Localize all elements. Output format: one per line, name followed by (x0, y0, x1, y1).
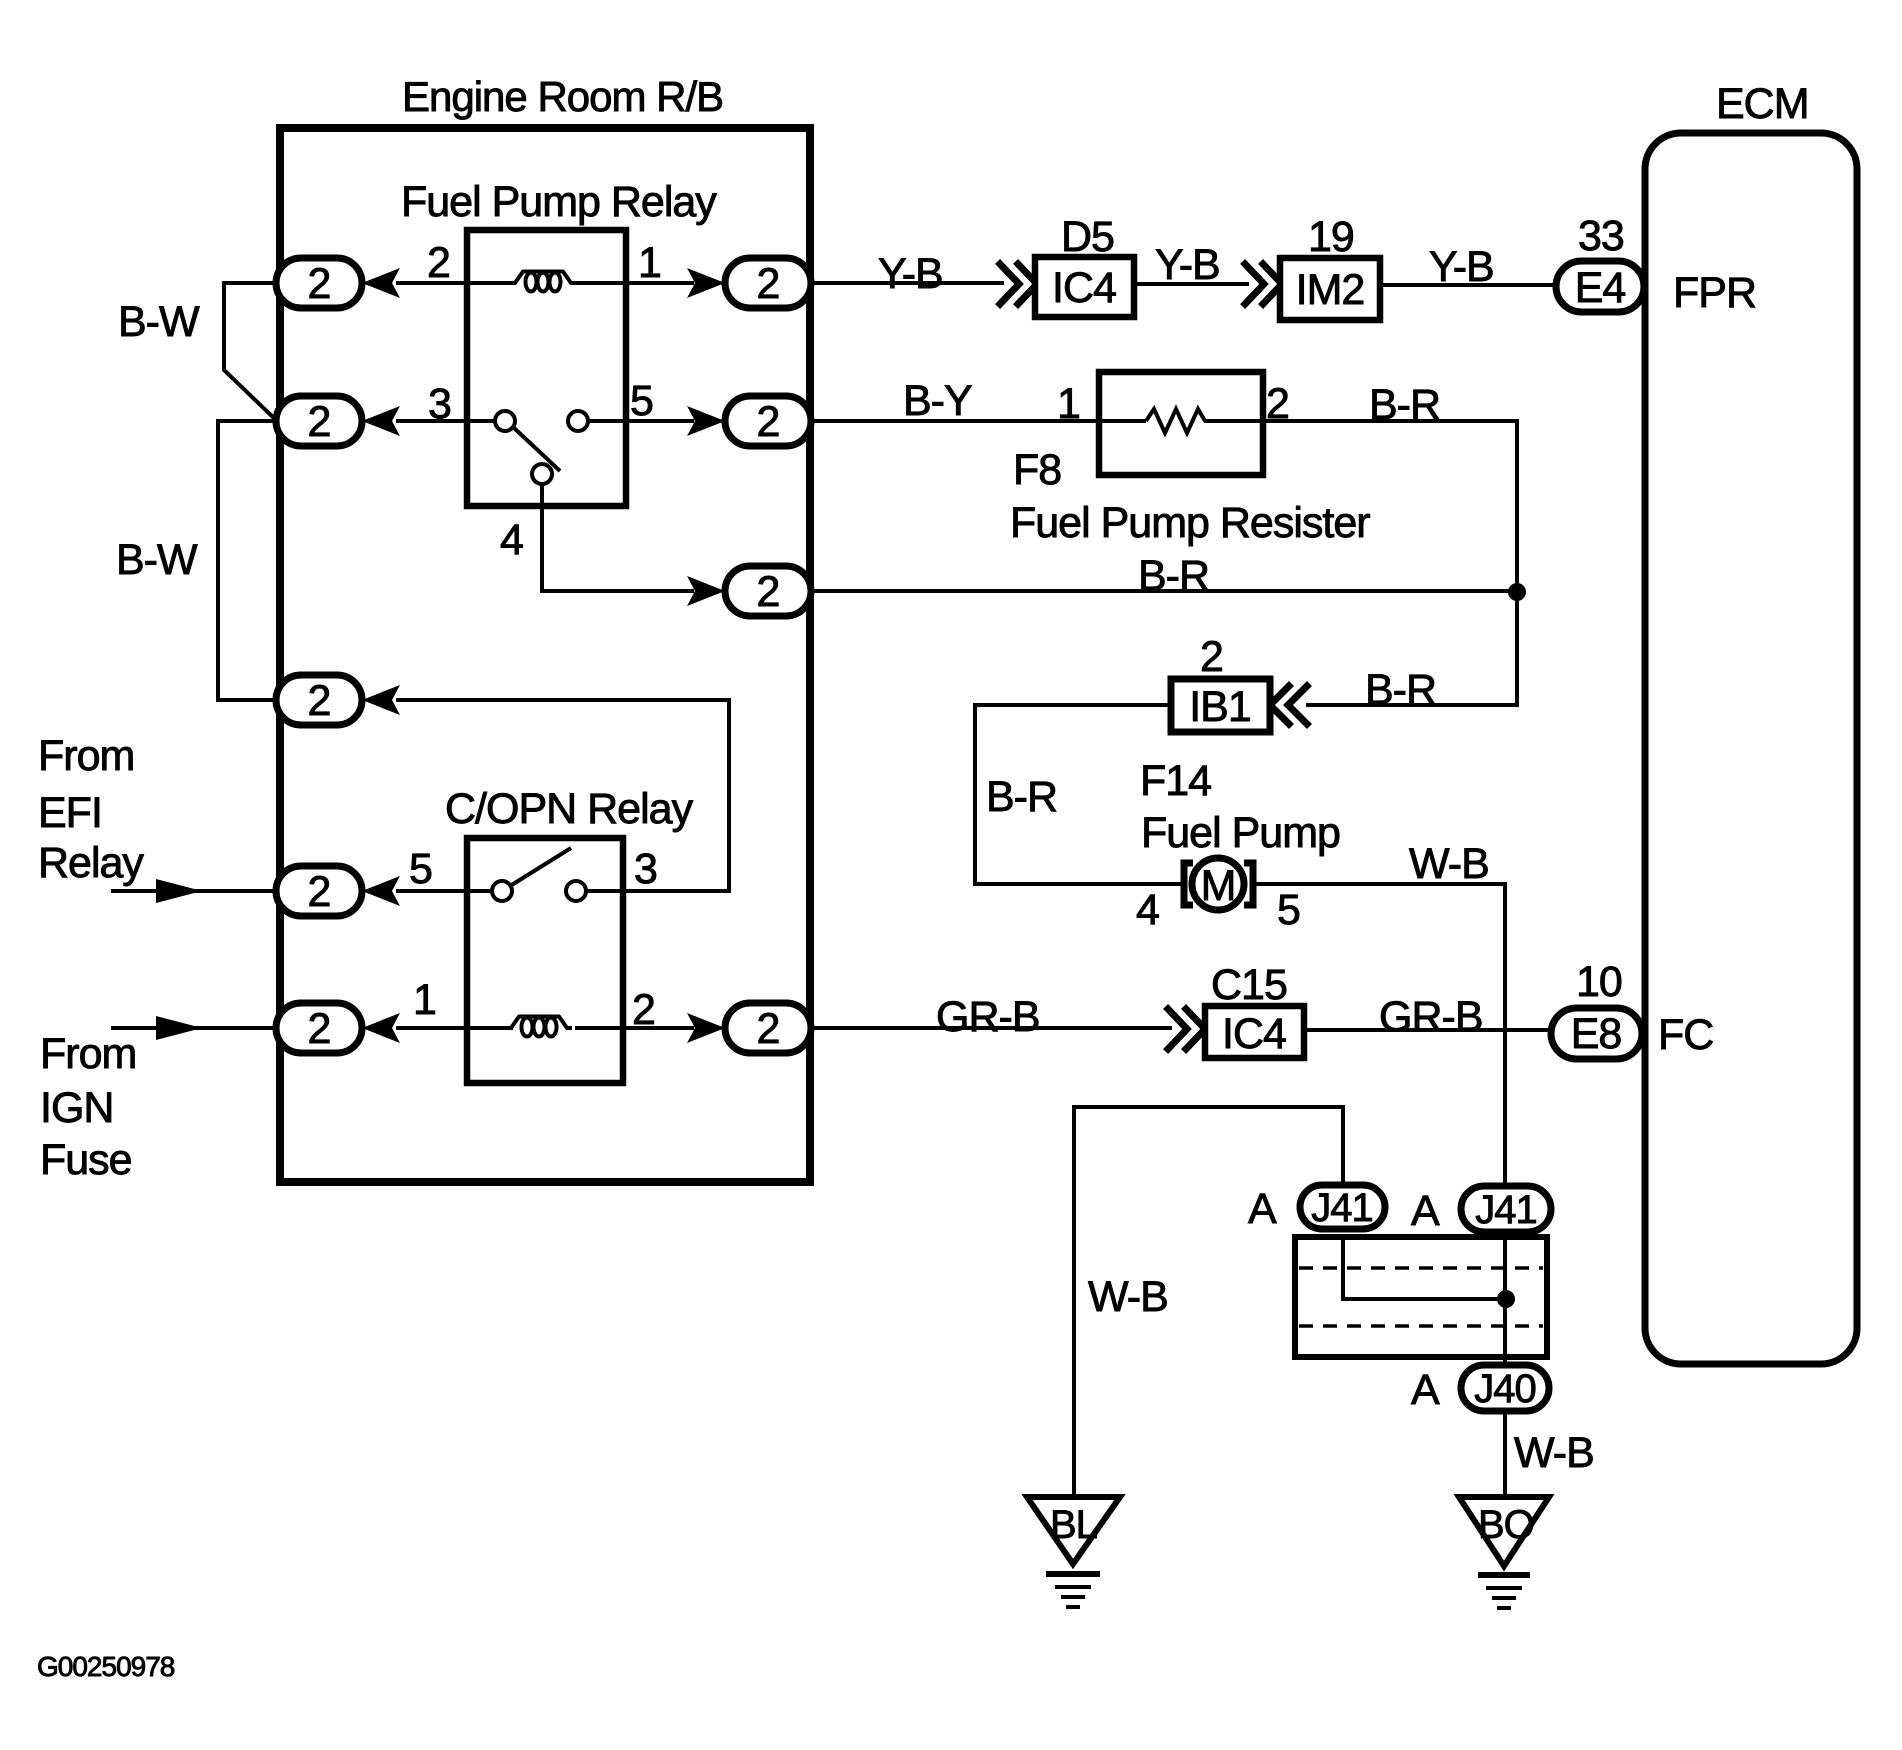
svg-text:Engine Room R/B: Engine Room R/B (402, 73, 723, 120)
From EFI Relay lead-in wire (111, 889, 276, 893)
svg-text:1: 1 (638, 239, 661, 287)
arrowhead row3 right (687, 576, 725, 606)
connector oval 2 IGN row right (725, 1003, 811, 1053)
svg-text:A: A (1411, 1187, 1440, 1235)
C/OPN switch contacts (492, 881, 512, 901)
svg-text:EFI: EFI (38, 789, 102, 837)
svg-text:A: A (1411, 1366, 1440, 1414)
wire coil to pin 2 right oval (575, 1026, 694, 1030)
svg-text:5: 5 (1277, 886, 1300, 934)
svg-text:IC4: IC4 (1222, 1010, 1286, 1058)
svg-text:Y-B: Y-B (1155, 241, 1220, 289)
connector chevrons D5 (1000, 264, 1019, 304)
svg-text:IB1: IB1 (1189, 683, 1251, 731)
ground BO triangle (1459, 1497, 1549, 1566)
svg-text:2: 2 (757, 260, 780, 308)
wire B-W from pin3 oval down to third oval (218, 421, 277, 700)
resistor lead wires (1099, 419, 1146, 423)
svg-text:IGN: IGN (40, 1084, 113, 1132)
From IGN arrow (156, 1016, 202, 1040)
junction dot (1508, 583, 1526, 601)
svg-text:Relay: Relay (38, 839, 144, 887)
connector oval 2 EFI row left (276, 866, 362, 916)
svg-text:B-R: B-R (1138, 552, 1209, 600)
svg-text:3: 3 (428, 380, 451, 428)
connector J41 right oval (1461, 1186, 1551, 1232)
svg-text:Y-B: Y-B (1429, 243, 1494, 291)
svg-text:IC4: IC4 (1052, 264, 1116, 312)
C/OPN coil (501, 1017, 572, 1029)
connector J41 left oval (1300, 1185, 1385, 1229)
wire Y-B IM2 to E4 (1380, 283, 1560, 287)
C/OPN switch wire to pin3 (586, 889, 623, 893)
connector oval 2 row2 left (276, 396, 362, 446)
svg-text:B-R: B-R (1369, 381, 1440, 429)
svg-text:G00250978: G00250978 (37, 1651, 175, 1682)
svg-text:GR-B: GR-B (936, 993, 1040, 1041)
relay switch blade (513, 427, 560, 471)
connector IC4 (C15) box (1205, 1006, 1304, 1058)
arrowhead IGN row (362, 1013, 400, 1043)
svg-text:2: 2 (757, 398, 780, 446)
svg-text:A: A (1248, 1185, 1277, 1233)
svg-text:IM2: IM2 (1296, 266, 1365, 314)
svg-text:J40: J40 (1474, 1367, 1536, 1411)
connector IM2 box (1280, 258, 1380, 320)
svg-text:E4: E4 (1575, 264, 1626, 312)
connector oval 2 row2 right (725, 396, 811, 446)
C/OPN relay box (467, 838, 623, 1083)
dashed separator (1299, 1324, 1543, 1328)
svg-text:J41: J41 (1311, 1186, 1373, 1230)
wire J40 to BO ground (1503, 1411, 1507, 1497)
svg-text:2: 2 (757, 1005, 780, 1053)
relay switch contacts (495, 411, 515, 431)
arrowhead row2 left (362, 406, 400, 436)
wire EFI oval to relay pin 5 (396, 889, 492, 893)
svg-text:Fuel Pump: Fuel Pump (1141, 809, 1340, 857)
wire Y-B between IC4 and IM2 (1134, 282, 1249, 286)
svg-text:From: From (40, 1030, 136, 1078)
wire B-Y from oval to resistor (810, 419, 1099, 423)
svg-text:B-W: B-W (118, 298, 200, 346)
svg-text:2: 2 (308, 260, 331, 308)
svg-text:2: 2 (427, 239, 450, 287)
From IGN Fuse lead-in wire (111, 1026, 276, 1030)
resistor zigzag (1146, 409, 1205, 433)
connector oval 2 row3 right (725, 566, 811, 616)
svg-text:E8: E8 (1571, 1010, 1622, 1058)
junction dot (1497, 1290, 1515, 1308)
C/OPN switch blade (510, 848, 571, 886)
svg-text:5: 5 (630, 377, 653, 425)
connector oval 2 row3 left (276, 675, 362, 725)
svg-text:4: 4 (1136, 886, 1159, 934)
svg-text:B-R: B-R (1365, 666, 1436, 714)
svg-text:J41: J41 (1475, 1188, 1537, 1232)
arrowhead row3 left (362, 685, 400, 715)
wire B-W loop from relay pin2 oval (224, 283, 277, 421)
ECM box (1645, 133, 1857, 1364)
svg-text:B-Y: B-Y (903, 377, 972, 425)
wire B-R resistor to vertical (1263, 421, 1517, 705)
svg-text:M: M (1201, 862, 1236, 910)
arrowhead row1 left (362, 268, 400, 298)
Engine Room R/B junction block box (280, 128, 810, 1182)
svg-text:F14: F14 (1140, 757, 1211, 805)
ground BL triangle (1027, 1497, 1120, 1564)
svg-text:2: 2 (308, 1005, 331, 1053)
svg-text:ECM: ECM (1716, 80, 1809, 128)
connector oval 2 IGN row left (276, 1003, 362, 1053)
svg-text:2: 2 (308, 398, 331, 446)
svg-text:1: 1 (413, 976, 436, 1024)
svg-text:FC: FC (1658, 1011, 1713, 1059)
svg-text:1: 1 (1057, 380, 1080, 428)
wire Y-B row to IC4 (810, 281, 1004, 285)
fuel pump relay box (467, 230, 626, 506)
svg-text:19: 19 (1308, 213, 1354, 261)
wire IGN oval to relay coil (396, 1026, 513, 1030)
ground BO hatch (1478, 1572, 1530, 1578)
svg-text:2: 2 (1200, 633, 1223, 681)
svg-text:Fuse: Fuse (40, 1136, 132, 1184)
wire from IB1 down to fuel pump (975, 705, 1186, 884)
wire pin2 to fuel pump relay (396, 281, 467, 285)
svg-text:GR-B: GR-B (1379, 993, 1483, 1041)
svg-text:C/OPN Relay: C/OPN Relay (445, 785, 694, 833)
svg-text:2: 2 (308, 868, 331, 916)
svg-text:2: 2 (757, 568, 780, 616)
svg-text:Fuel Pump Relay: Fuel Pump Relay (401, 178, 717, 226)
wire B-R from third oval to junction (810, 589, 1517, 593)
arrowhead IGN row right (687, 1013, 725, 1043)
svg-text:BO: BO (1478, 1503, 1534, 1547)
relay switch wires (467, 419, 495, 423)
connector chevrons into IB1 (1270, 686, 1289, 724)
svg-text:Y-B: Y-B (878, 250, 943, 298)
svg-text:B-R: B-R (986, 773, 1057, 821)
wire pin1 from relay to right oval (626, 281, 694, 285)
svg-text:3: 3 (634, 845, 657, 893)
ECM pin E8 oval (1551, 1008, 1642, 1059)
svg-text:FPR: FPR (1673, 269, 1756, 317)
connector oval 2 row1 right (725, 258, 811, 308)
svg-text:5: 5 (409, 845, 432, 893)
svg-text:4: 4 (500, 516, 523, 564)
fuel pump resistor F8 box (1099, 372, 1263, 475)
wire pin5 from relay to right oval (626, 419, 694, 423)
wire relay pin4 down and right to oval (542, 484, 694, 591)
connector chevrons 19 (1245, 264, 1264, 304)
wire W-B left branch to BL ground (1074, 1107, 1343, 1497)
ground BL hatch (1046, 1571, 1100, 1577)
svg-text:2: 2 (632, 986, 655, 1034)
ECM pin E4 oval (1556, 261, 1644, 312)
svg-text:B-W: B-W (116, 536, 198, 584)
arrowhead row1 right (687, 268, 725, 298)
fuel pump motor M (1184, 863, 1193, 905)
connector oval 2 row1 left (276, 258, 362, 308)
C/OPN relay loop wire from pin 3 up to oval (396, 700, 729, 891)
ground junction block (1295, 1237, 1547, 1357)
wire pin3 to relay (396, 419, 467, 423)
relay coil wire (467, 281, 514, 285)
relay coil (505, 272, 576, 284)
svg-text:2: 2 (308, 677, 331, 725)
wire GR-B IC4 to E8 (1304, 1028, 1555, 1032)
svg-text:Fuel Pump Resister: Fuel Pump Resister (1010, 499, 1370, 547)
connector IB1 box (1171, 679, 1270, 732)
svg-text:F8: F8 (1013, 446, 1061, 494)
connector J40 oval (1461, 1365, 1549, 1411)
block internal wire (1343, 1237, 1506, 1299)
connector IC4 (D5) box (1035, 257, 1134, 317)
wire GR-B from oval to IC4 (810, 1026, 1172, 1030)
From EFI arrow (156, 879, 202, 903)
svg-text:W-B: W-B (1514, 1429, 1594, 1477)
wire W-B through block (1503, 1232, 1507, 1365)
svg-text:W-B: W-B (1409, 840, 1489, 888)
svg-text:W-B: W-B (1088, 1273, 1168, 1321)
svg-text:From: From (38, 732, 134, 780)
arrowhead EFI row (362, 876, 400, 906)
svg-text:BL: BL (1050, 1503, 1097, 1547)
wire W-B from motor to J41 (1252, 884, 1505, 1186)
svg-text:33: 33 (1578, 212, 1624, 260)
dashed separator (1299, 1266, 1543, 1270)
arrowhead row2 right (687, 406, 725, 436)
svg-text:C15: C15 (1211, 961, 1287, 1009)
svg-text:10: 10 (1576, 958, 1622, 1006)
connector chevrons C15 (1168, 1009, 1187, 1049)
